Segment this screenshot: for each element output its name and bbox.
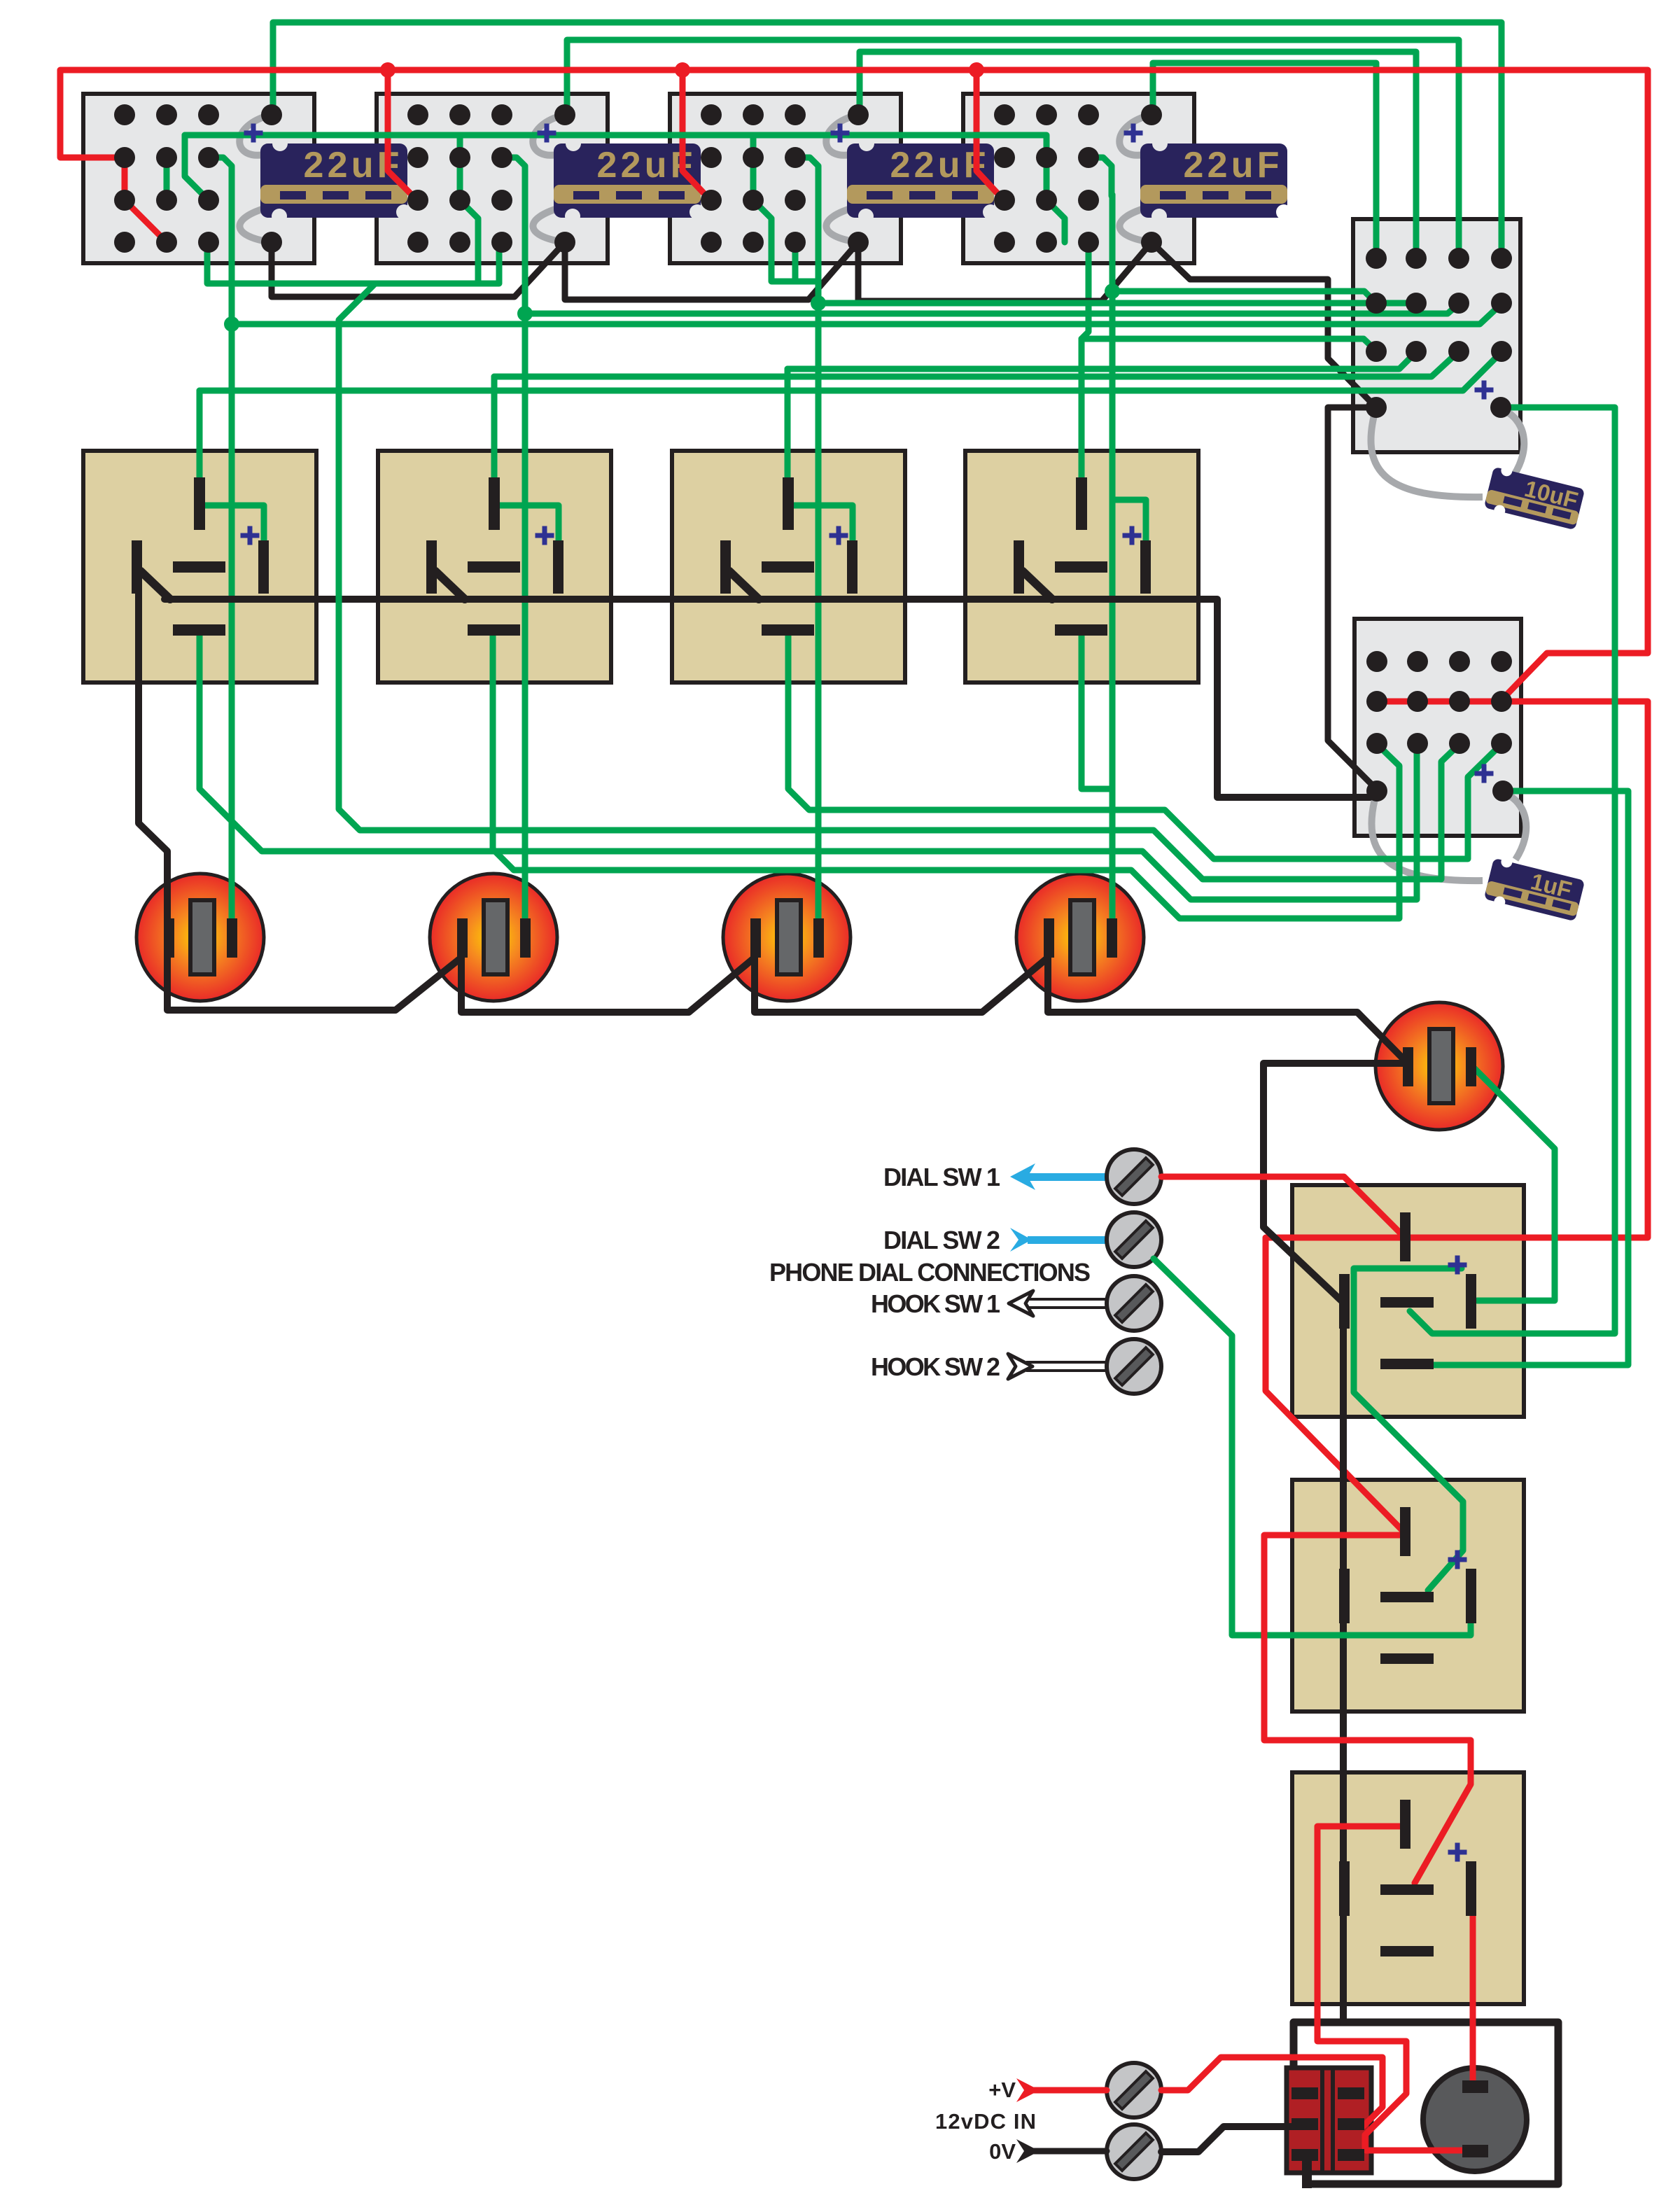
- wire green TB3 c3r2 jog to lamp feed: [795, 157, 818, 196]
- wire green RL5 plus pin to RL6 mid bar: [1354, 1268, 1463, 1590]
- wire black RL3 switch diagonal: [729, 571, 759, 599]
- wire black relay chain RL1-RL4 to TB6 pin: [164, 599, 1377, 797]
- polarity mark + RL7: [1448, 1843, 1467, 1862]
- terminal board TB3 body: [670, 94, 901, 263]
- polarity mark + TB2: [538, 124, 556, 143]
- wire red RL7 coil feed to connector J1: [1317, 1826, 1406, 2148]
- relay RL4 body: [965, 451, 1198, 682]
- wire green bundleA line2 TB3 to TB5 row2 col2: [818, 300, 1416, 307]
- wire green RL1 coil hook to plus pin: [204, 505, 264, 543]
- lamp LP4 filament and pins: [1044, 900, 1117, 974]
- gray jumper capacitor C4 bottom to TB4 pin: [1119, 207, 1151, 242]
- gray jumper TB4 pin to capacitor C4 top: [1119, 115, 1151, 155]
- wire black screw T6 to connector J1: [1161, 2127, 1291, 2152]
- gray jumper TB6 to capacitor C6: [1371, 791, 1483, 881]
- terminal screw T4: [1107, 1339, 1161, 1394]
- wire green lamp LP5 to RL5 plus pin: [1473, 1067, 1555, 1301]
- wire green screw T2 to RL6 plus pin: [1154, 1259, 1471, 1635]
- capacitor C3 22uF: [847, 136, 998, 224]
- terminal board TB5 body: [1353, 219, 1520, 452]
- wire black TB2 to TB3: [565, 242, 858, 300]
- junction green bundleA 3: [811, 295, 826, 311]
- lamp LP5 body: [1375, 1002, 1503, 1130]
- gray jumper TB6 plus to capacitor C6: [1503, 792, 1526, 860]
- svg-text:22uF: 22uF: [890, 145, 986, 185]
- relay RL6 body: [1292, 1480, 1524, 1711]
- polarity mark + TB4: [1124, 124, 1143, 143]
- wire red drop to TB2: [388, 70, 418, 201]
- wire red +V arrow to screw T5: [1033, 2087, 1107, 2094]
- wire red screw T5 to connector J1: [1161, 2057, 1382, 2126]
- polarity mark + TB1: [244, 124, 263, 143]
- polarity mark + RL6: [1448, 1550, 1467, 1569]
- gray jumper capacitor C1 bottom to TB1 pin: [239, 207, 272, 242]
- terminal board TB5 pin pads: [1366, 248, 1512, 418]
- relay RL1 body: [83, 451, 316, 682]
- wire green TB5 plus pin to RL5 mid bar: [1410, 407, 1615, 1333]
- terminal board TB1 body: [83, 94, 314, 263]
- wire green bus TB3 cap to TB5 col2: [860, 52, 1416, 258]
- wire red RL6 coil to RL7 mid bar: [1264, 1535, 1471, 1883]
- wire red +V top bus: [60, 70, 1648, 700]
- wire black TB4 to TB5 lower pin: [1151, 242, 1375, 406]
- polarity mark + RL4: [1123, 526, 1142, 545]
- polarity mark + RL2: [535, 526, 554, 545]
- wire green bundleB RL2 line to TB5 row3 col3: [494, 351, 1459, 377]
- relay RL2 pins: [426, 477, 563, 636]
- wire green bundleB RL4 line to TB5 row3 col1: [1081, 339, 1376, 351]
- svg-text:+V: +V: [988, 2078, 1016, 2102]
- wire green RL2 output to bundleC line4: [493, 632, 1399, 918]
- junction green bundleA 4: [1105, 283, 1120, 299]
- wire red TB6 row2 bus to relay RL6 coil: [1266, 701, 1648, 1530]
- wire black lamp LP5 to RL5 common pin: [1263, 1063, 1406, 1301]
- junction green bundleA 1: [224, 316, 239, 332]
- relay RL5 body: [1292, 1185, 1524, 1417]
- wire green bus TB1 cap to TB5 col4: [273, 22, 1501, 258]
- arrow white HOOK SW 1: [1009, 1291, 1107, 1316]
- gray jumper capacitor C2 bottom to TB2 pin: [533, 207, 565, 242]
- wire black RL2 switch diagonal: [435, 571, 465, 599]
- terminal board TB3 pin pads: [701, 104, 869, 253]
- wire green RL3 coil hook to plus pin: [792, 505, 853, 543]
- wire black motor frame: [1294, 2022, 1558, 2184]
- junction red TB4 drop: [969, 62, 984, 78]
- wire red RL7 plus pin to motor M1: [1470, 1915, 1476, 2083]
- wire green TB3 zig and c3r4 join to lamp feed: [753, 200, 818, 281]
- svg-text:12vDC IN: 12vDC IN: [935, 2109, 1036, 2134]
- lamp LP3 body: [723, 874, 850, 1001]
- terminal screw T1: [1107, 1149, 1161, 1204]
- wire green bundleA line1 TB4 to TB5 row2 col1: [1112, 291, 1376, 303]
- arrow red +V: [1016, 2078, 1039, 2102]
- wire green bundleA line3 TB2 to TB5 row2 col3: [525, 304, 1459, 314]
- lamp LP3 filament and pins: [750, 900, 824, 974]
- capacitor C5 10uF: [1483, 462, 1586, 535]
- wire green relay RL3 coil feed drop: [785, 369, 791, 489]
- wire green lamp feed vertical TB2 to lamp LP2: [522, 195, 528, 921]
- wire green RL4 output joins lamp feed: [1081, 632, 1112, 789]
- wire red screw T1 to RL5 coil pin: [1161, 1177, 1403, 1236]
- polarity mark + TB6: [1475, 764, 1494, 783]
- svg-text:DIAL SW 1: DIAL SW 1: [883, 1163, 1000, 1191]
- wire black lamp chain LP1-LP5: [139, 592, 1406, 1062]
- wire green TB3 c3r4 stub: [792, 242, 799, 281]
- relay RL3 body: [672, 451, 905, 682]
- svg-text:0V: 0V: [989, 2139, 1016, 2164]
- wire green TB1 c3r2 jog to lamp feed: [209, 157, 232, 196]
- relay RL4 pins: [1014, 477, 1151, 636]
- terminal board TB2 pin pads: [407, 104, 575, 253]
- polarity mark + RL1: [241, 526, 260, 545]
- terminal board TB6 body: [1354, 619, 1521, 836]
- relay RL1 pins: [132, 477, 269, 636]
- wire red drop to TB4: [976, 70, 1004, 201]
- wire green TB2 zig from c2r3 to rail: [460, 200, 478, 283]
- lamp LP2 filament and pins: [457, 900, 531, 974]
- lamp LP1 body: [136, 874, 264, 1001]
- wire green relay RL2 coil feed drop: [491, 377, 498, 489]
- lamp LP2 body: [430, 874, 557, 1001]
- wire green bundleB RL1 line to TB5 row3 col4: [199, 352, 1501, 391]
- wire green TB4 zig from c2r3: [1046, 200, 1065, 242]
- terminal board TB4 pin pads: [994, 104, 1162, 253]
- svg-text:DIAL SW 2: DIAL SW 2: [883, 1226, 1000, 1254]
- lamp LP5 filament and pins: [1403, 1029, 1476, 1103]
- wire green RL3 output to bundleC line1: [788, 632, 1501, 859]
- relay RL6 pins: [1339, 1507, 1476, 1664]
- terminal screw T6: [1107, 2124, 1161, 2179]
- arrow blue DIAL SW 1: [1010, 1163, 1107, 1190]
- wire green TB3 line drop row2-row3: [750, 135, 757, 200]
- wire green TB2 c3r2 jog to lamp feed: [502, 157, 525, 196]
- terminal screw T5: [1107, 2063, 1161, 2117]
- wire black TB3 to TB4: [858, 242, 1151, 301]
- terminal board TB4 body: [963, 94, 1194, 263]
- capacitor C2 22uF: [554, 136, 705, 224]
- polarity mark + RL5: [1448, 1256, 1467, 1275]
- junction green bundleA 2: [517, 306, 533, 321]
- motor M1 body: [1423, 2068, 1527, 2171]
- gray jumper TB5 plus to capacitor C5: [1501, 409, 1524, 476]
- connector J1 pins: [1291, 2087, 1364, 2188]
- wire green RL2 coil hook to plus pin: [498, 505, 559, 543]
- svg-text:HOOK SW 1: HOOK SW 1: [871, 1289, 1000, 1318]
- terminal board TB6 pin pads: [1366, 651, 1513, 801]
- wire green TB4 line drop row2-row3: [1044, 135, 1050, 200]
- wire black RL1 switch diagonal: [141, 571, 170, 599]
- lamp LP1 filament and pins: [164, 900, 237, 974]
- lamp LP4 body: [1016, 874, 1144, 1001]
- svg-text:22uF: 22uF: [597, 145, 693, 185]
- wire green bus TB4 cap to TB5 col1: [1153, 63, 1376, 258]
- wire green bus TB2 cap to TB5 col3: [567, 40, 1459, 258]
- wire green bundleB RL3 line to TB5 row3 col2: [787, 352, 1416, 369]
- polarity mark + RL3: [829, 526, 848, 545]
- relay RL3 pins: [720, 477, 857, 636]
- wire black TB5 lower pin to TB6 pin: [1328, 407, 1377, 790]
- connector J1 body: [1287, 2068, 1371, 2173]
- relay RL5 pins: [1339, 1212, 1476, 1369]
- gray jumper TB3 pin to capacitor C3 top: [826, 115, 858, 155]
- wire green TB1 line drop to c3r3: [185, 135, 209, 200]
- wire green lamp feed vertical TB1 to lamp LP1: [229, 195, 235, 921]
- polarity mark + TB5: [1475, 381, 1494, 400]
- wire green TB4 c3r2 jog to lamp feed: [1088, 157, 1112, 196]
- wire black 0V arrow to screw T6: [1033, 2148, 1107, 2155]
- capacitor C4 22uF: [1140, 136, 1291, 224]
- wire black RL4 switch diagonal: [1023, 571, 1052, 599]
- motor M1 pins: [1462, 2080, 1488, 2157]
- junction red TB3 drop: [675, 62, 690, 78]
- wire green RL1 output to bundleC line3: [199, 632, 1417, 899]
- capacitor C1 22uF: [260, 136, 412, 224]
- wire green RL4 hook from lamp feed to plus pin: [1112, 500, 1146, 543]
- terminal screw T2: [1107, 1212, 1161, 1267]
- capacitor C6 1uF: [1483, 853, 1586, 926]
- wire green bundleA line4 TB1 to TB5 row2 col4: [232, 304, 1501, 324]
- wire green TB1 internal row2-row3: [164, 157, 170, 200]
- wire green lamp feed vertical TB3 to lamp LP3: [815, 195, 822, 921]
- terminal screw T3: [1107, 1276, 1161, 1331]
- wire green long line across boards: [185, 132, 1046, 139]
- wire green lamp feed vertical TB4 to lamp LP4: [1109, 195, 1116, 921]
- relay RL7 pins: [1339, 1800, 1476, 1956]
- terminal board TB2 body: [377, 94, 608, 263]
- arrow blue DIAL SW 2: [1010, 1228, 1107, 1252]
- gray jumper TB1 pin to capacitor C1 top: [239, 115, 272, 155]
- wire green relay RL4 coil feed drop: [1081, 242, 1088, 489]
- arrow black 0V: [1016, 2139, 1039, 2163]
- svg-text:22uF: 22uF: [1184, 145, 1280, 185]
- wire black TB1 to TB2: [272, 242, 565, 297]
- wire red TB1 internal: [125, 157, 167, 242]
- relay RL2 body: [378, 451, 611, 682]
- wire red drop to TB3: [682, 70, 711, 201]
- gray jumper capacitor C3 bottom to TB3 pin: [826, 207, 858, 242]
- polarity mark + TB3: [831, 124, 850, 143]
- wire green TB6 plus pin to RL5 low bar: [1434, 791, 1628, 1365]
- wire black common chain RL5-RL6-RL7 to frame: [1340, 1301, 1347, 2022]
- svg-text:HOOK SW 2: HOOK SW 2: [871, 1352, 1000, 1381]
- wire red connector J1 to motor M1 bottom: [1366, 2148, 1462, 2154]
- terminal board TB1 pin pads: [114, 104, 282, 253]
- gray jumper TB5 to capacitor C5: [1371, 407, 1483, 497]
- gray jumper TB2 pin to capacitor C2 top: [533, 115, 565, 155]
- wire green relay RL1 coil feed drop: [197, 391, 203, 489]
- arrow white HOOK SW 2: [1008, 1354, 1107, 1379]
- wire green rail TB1 c3r4 to TB2 c3r4: [207, 242, 499, 283]
- junction red TB2 drop: [380, 62, 395, 78]
- relay RL7 body: [1292, 1772, 1524, 2004]
- wire green rail drop to bundleC line2: [339, 283, 1459, 879]
- wire green TB2 line drop row2-row3: [457, 135, 463, 200]
- svg-text:PHONE DIAL CONNECTIONS: PHONE DIAL CONNECTIONS: [769, 1258, 1091, 1287]
